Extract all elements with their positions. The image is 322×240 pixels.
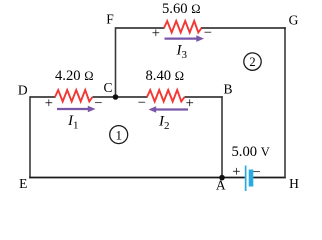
wire R1 to R2 through node C	[93, 96, 148, 98]
svg-text:5.00 V: 5.00 V	[232, 144, 270, 160]
svg-text:8.40 Ω: 8.40 Ω	[146, 68, 184, 84]
svg-text:F: F	[106, 11, 114, 26]
svg-text:+: +	[232, 164, 240, 180]
svg-text:+: +	[152, 25, 160, 41]
resistor 5.60 ohm (zigzag)	[164, 21, 202, 33]
resistor 4.20 ohm (zigzag)	[55, 90, 93, 102]
svg-text:−: −	[94, 95, 102, 111]
junction dot node C	[113, 94, 119, 100]
wire R2 to corner B	[185, 96, 223, 98]
svg-text:1: 1	[115, 128, 122, 143]
svg-text:5.60 Ω: 5.60 Ω	[162, 1, 200, 17]
current arrow I3	[165, 35, 205, 42]
svg-text:−: −	[204, 25, 212, 41]
wire C to F (vertical)	[115, 27, 117, 97]
svg-text:B: B	[223, 81, 232, 96]
svg-text:4.20 Ω: 4.20 Ω	[55, 68, 93, 84]
svg-text:G: G	[289, 13, 299, 28]
wire G to H (right vertical)	[284, 27, 286, 178]
svg-text:C: C	[103, 80, 112, 95]
svg-text:H: H	[289, 176, 299, 191]
svg-text:A: A	[216, 178, 226, 193]
svg-text:2: 2	[249, 55, 255, 69]
svg-text:+: +	[45, 96, 53, 112]
svg-text:E: E	[19, 176, 27, 191]
wire B to A (vertical)	[221, 96, 223, 177]
resistor 8.40 ohm (zigzag)	[147, 90, 185, 102]
wire battery negative plate to H	[253, 177, 286, 179]
wire D to R1 (middle left stub)	[30, 96, 56, 98]
svg-text:−: −	[253, 164, 261, 180]
wire D to E (left vertical)	[29, 96, 31, 178]
svg-text:−: −	[138, 95, 146, 111]
svg-text:D: D	[18, 82, 28, 97]
wire R3 to G (top right)	[201, 27, 286, 29]
wire F to R3 (top left stub)	[115, 27, 164, 29]
current arrow I1	[57, 106, 96, 113]
battery 5.00 V negative plate (short thick)	[249, 170, 254, 187]
loop marker 1	[110, 126, 128, 144]
battery 5.00 V positive plate (tall thin)	[245, 166, 247, 192]
wire E to battery positive plate (bottom)	[29, 177, 245, 179]
loop marker 2	[244, 53, 261, 70]
junction dot node A	[219, 175, 225, 181]
current arrow I2	[149, 106, 189, 113]
